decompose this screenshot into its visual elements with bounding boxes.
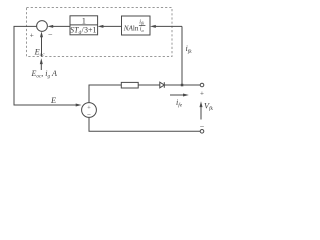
svg-text:−: −: [200, 122, 205, 131]
svg-text:ife: ife: [176, 98, 183, 109]
svg-text:E: E: [50, 96, 56, 105]
svg-text:−: −: [48, 30, 53, 39]
svg-text:1: 1: [82, 17, 86, 26]
svg-text:+: +: [30, 31, 34, 40]
svg-text:Vfk: Vfk: [204, 101, 214, 112]
svg-text:+: +: [200, 90, 204, 98]
svg-text:Eoc, ig A: Eoc, ig A: [31, 69, 57, 80]
svg-text:NAln: NAln: [123, 24, 139, 32]
svg-text:STd/3+1: STd/3+1: [70, 26, 97, 37]
svg-text:−: −: [87, 111, 91, 119]
svg-text:Eoc: Eoc: [34, 47, 46, 58]
svg-text:ifk: ifk: [186, 44, 193, 55]
